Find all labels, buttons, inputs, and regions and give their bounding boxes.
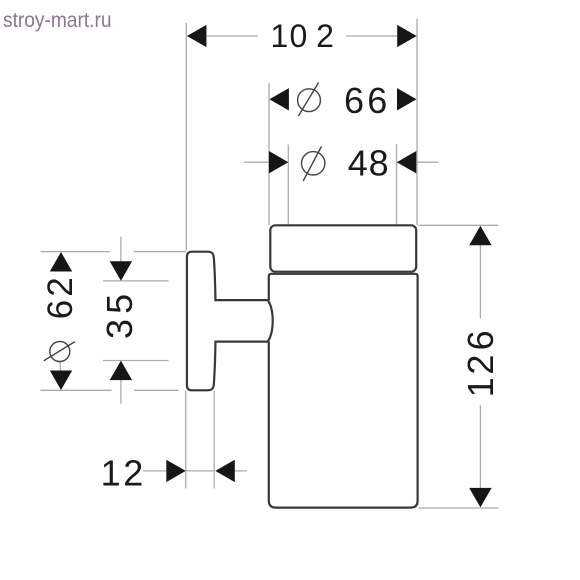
arrow 66 left (269, 88, 289, 110)
svg-text:stroy-mart.ru: stroy-mart.ru (3, 9, 112, 32)
svg-text:6: 6 (460, 330, 501, 350)
svg-text:2: 2 (123, 453, 143, 494)
svg-text:1: 1 (101, 453, 121, 494)
label 12 (101, 453, 144, 494)
svg-text:2: 2 (316, 18, 334, 54)
dim line 102 (206, 35, 397, 37)
svg-text:1: 1 (271, 18, 289, 54)
diameter symbol 66 (298, 83, 321, 117)
arrow 12 right (215, 460, 235, 482)
arrow 66 right (397, 88, 417, 110)
svg-text:2: 2 (41, 277, 80, 296)
diameter symbol 62 (44, 342, 75, 362)
wall plate (187, 252, 216, 391)
arrow 126 bottom (469, 488, 491, 508)
dim line 48 leaders (244, 161, 439, 163)
dim line 12 (143, 470, 247, 472)
arm fill (210, 301, 267, 340)
arrow 126 top (469, 226, 491, 246)
arrow 12 left (166, 460, 186, 482)
label 126 rotated (460, 330, 501, 397)
svg-text:6: 6 (41, 300, 80, 319)
arrow 35 bottom (110, 361, 132, 381)
svg-text:4: 4 (348, 143, 368, 184)
svg-text:6: 6 (367, 80, 387, 121)
label 62 rotated (41, 277, 80, 319)
arrow 62 top (50, 252, 72, 272)
svg-text:5: 5 (99, 294, 140, 314)
cup body (269, 274, 418, 508)
extension line plate top (62) (41, 251, 187, 253)
arrow 102 right (397, 25, 417, 47)
extension line 66 left (268, 83, 270, 225)
extension line plate-right plane (12) (213, 391, 215, 489)
extension line 35 bottom (103, 360, 169, 362)
dim line 126 (479, 244, 481, 490)
extension line 35 top (103, 280, 169, 282)
label 35 rotated (99, 294, 140, 339)
arrow 35 top (110, 261, 132, 281)
extension line cup-right plane (102/66) (416, 19, 418, 226)
extension line 48 right (396, 144, 398, 225)
arrow 48 left (269, 151, 289, 173)
svg-text:3: 3 (99, 319, 140, 339)
label 66 (344, 80, 387, 121)
extension line cup top (126) (419, 224, 499, 226)
diameter symbol 48 (302, 147, 325, 181)
arrow 62 bottom (50, 371, 72, 391)
arm (215, 300, 273, 342)
extension line plate-left plane (102 top / 12 bottom) (185, 23, 188, 489)
svg-text:0: 0 (290, 18, 308, 54)
svg-text:8: 8 (369, 143, 389, 184)
arrow 48 right (397, 151, 417, 173)
extension line 48 left (287, 145, 289, 226)
extension line cup bottom (126) (419, 507, 499, 509)
cup rim (270, 225, 416, 271)
svg-text:1: 1 (460, 377, 501, 397)
dim line 35 tails (120, 237, 122, 404)
label 102 (271, 18, 334, 54)
svg-text:6: 6 (344, 80, 364, 121)
svg-text:2: 2 (460, 355, 501, 375)
arrow 102 left (187, 25, 207, 47)
dim line 62 stub (59, 361, 61, 373)
label 48 (348, 143, 389, 184)
extension line plate bottom (62) (41, 389, 179, 391)
